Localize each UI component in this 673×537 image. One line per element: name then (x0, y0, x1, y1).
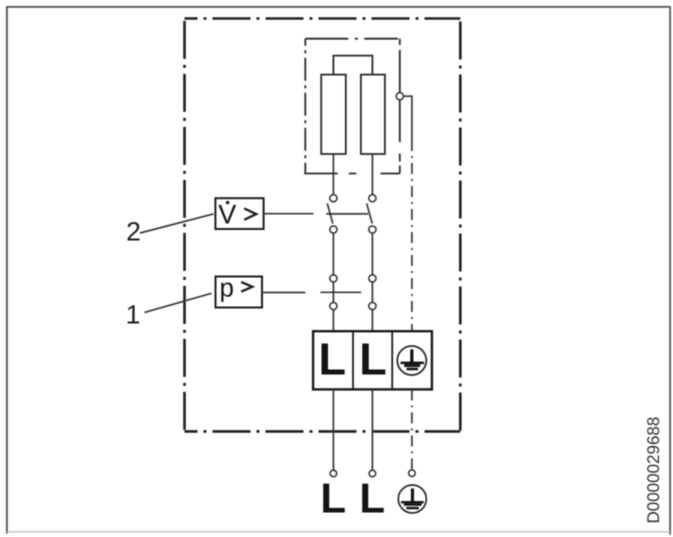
wire: earth pigtail from enclosure (403, 96, 412, 140)
supply end circle L2 (369, 470, 376, 477)
svg-text:2: 2 (126, 217, 141, 247)
flow switch sensor box V> (215, 198, 263, 229)
heating element R1 (321, 75, 346, 154)
terminal block (313, 331, 432, 389)
supply end circle L1 (330, 470, 337, 477)
contact circle: flow switch lower L1 (330, 226, 337, 233)
photo frame left (6, 6, 8, 534)
photo frame bottom (faint) (7, 531, 670, 533)
wire: leader V> to switch (264, 213, 314, 215)
wire: bridge between heating elements (333, 56, 372, 75)
svg-text:L: L (320, 475, 346, 522)
flow switch mechanical link (326, 213, 368, 215)
wire: earth drop (dash-dot) to terminal (411, 140, 413, 331)
appliance enclosure outer dash-dot boundary: bottom edge (185, 430, 461, 433)
leader line label 2 (140, 214, 214, 233)
wire: leader p> to switch (262, 292, 305, 294)
photo frame top (6, 6, 671, 8)
wire: L2 between switches (371, 230, 373, 332)
appliance enclosure outer dash-dot boundary: right edge (459, 19, 462, 432)
dot above V (226, 201, 229, 204)
heater block enclosure inner dash-dot boundary: left edge (304, 39, 306, 174)
svg-text:p: p (220, 272, 234, 302)
heater block enclosure inner dash-dot boundary: right edge pieces (399, 39, 401, 45)
contact circle: pressure switch lower L2 (369, 302, 376, 309)
leader line label 1 (145, 293, 212, 312)
pressure switch sensor box p> (216, 277, 263, 308)
appliance enclosure outer dash-dot boundary: top edge (185, 17, 461, 20)
heater block enclosure inner dash-dot boundary: top edge (305, 38, 398, 40)
wire: earth below terminal (dash-dot) (411, 389, 413, 470)
photo frame right (669, 6, 671, 535)
contact circle: flow switch lower L2 (369, 226, 376, 233)
contact circle: pressure switch lower L1 (330, 302, 337, 309)
contact circle: pressure switch upper L1 (330, 275, 337, 282)
heater block enclosure inner dash-dot boundary: bottom edge (304, 173, 400, 175)
terminal divider 2 (391, 331, 393, 389)
svg-text:1: 1 (126, 300, 141, 330)
wire: L1 between switches (332, 230, 334, 332)
wire: R1 bottom to flow-switch contact (332, 154, 334, 198)
svg-text:D0000029688: D0000029688 (644, 417, 663, 524)
supply end circle PE (409, 470, 416, 477)
terminal earth symbol (397, 346, 426, 375)
enclosure right-edge solid segment (earth tap) (399, 50, 401, 142)
contact circle: pressure switch upper L2 (369, 275, 376, 282)
wire: R2 bottom to flow-switch contact (371, 154, 373, 198)
wire: L2 terminal to supply (371, 389, 373, 470)
svg-text:L: L (319, 334, 347, 385)
supply earth symbol (398, 485, 426, 513)
flow switch S2 pole 2 blade (367, 204, 373, 224)
svg-text:L: L (359, 475, 385, 522)
heating element R2 (361, 75, 385, 154)
wire: L1 terminal to supply (332, 389, 334, 470)
earth node circle on enclosure (396, 93, 403, 100)
contact circle: flow switch upper L2 (369, 195, 376, 202)
contact circle: flow switch upper L1 (330, 195, 337, 202)
svg-text:L: L (359, 334, 387, 385)
appliance enclosure outer dash-dot boundary: left edge (183, 19, 186, 432)
pressure switch mechanical link (321, 291, 362, 293)
flow switch S2 pole 1 blade (327, 204, 333, 224)
terminal divider 1 (352, 331, 354, 389)
